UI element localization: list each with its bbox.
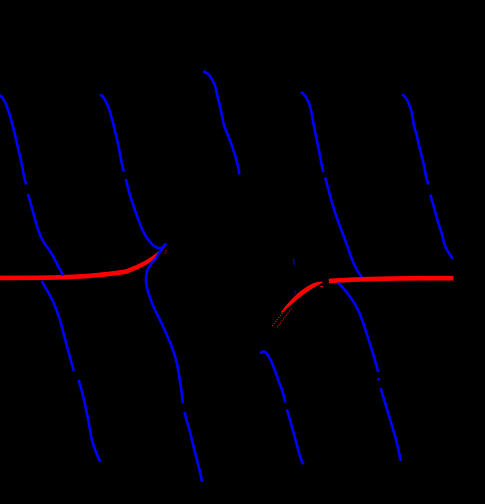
red singular solution, left branch: horizontal band bbox=[0, 271, 128, 278]
blue solution curve 3, upper arm with top hook bbox=[203, 71, 239, 174]
red faint dots below left beak bbox=[165, 250, 167, 252]
blue solution curve 1, lower arm bbox=[42, 281, 74, 371]
red singular solution, right branch: dotted thin tail strands bbox=[272, 325, 273, 326]
blue solution curve 4, lower arm bbox=[338, 283, 378, 373]
red singular solution, right branch: tapered sliver bbox=[281, 282, 323, 313]
blue solution curve 3, lower arm with hook bbox=[260, 352, 285, 403]
blue solution curve 3, faint mid dashes bbox=[293, 259, 296, 266]
blue solution curve 4, upper arm bbox=[301, 92, 324, 172]
red singular solution, right branch: horizontal band bbox=[329, 278, 454, 281]
blue solution curve 2, upper arm with beak bbox=[100, 95, 124, 172]
blue solution curve 1, upper arm bbox=[0, 95, 26, 185]
blue solution curve 2, lower arm bbox=[146, 244, 183, 403]
red singular solution, left branch: rising tapered tail bbox=[125, 246, 165, 273]
red lower lip at sliver tip bbox=[320, 286, 323, 288]
blue solution curve 5, upper arm bbox=[402, 94, 428, 184]
